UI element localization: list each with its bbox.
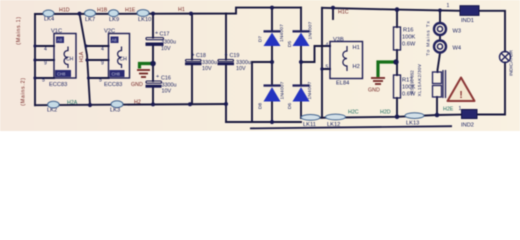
svg-text:LK2: LK2	[47, 108, 57, 114]
svg-text:ECC83: ECC83	[104, 82, 122, 88]
svg-text:3300u: 3300u	[161, 40, 176, 46]
svg-text:D8: D8	[258, 103, 264, 109]
svg-text:0.6W: 0.6W	[402, 42, 416, 48]
svg-text:10V: 10V	[162, 89, 172, 95]
svg-text:+: +	[192, 53, 195, 59]
svg-text:1N4007: 1N4007	[307, 81, 313, 99]
svg-text:CH8: CH8	[112, 72, 121, 77]
svg-text:LK3: LK3	[110, 108, 120, 114]
svg-text:A8: A8	[57, 38, 63, 43]
svg-text:H1A: H1A	[79, 51, 85, 62]
svg-text:H2C: H2C	[348, 110, 359, 116]
svg-text:V3B: V3B	[333, 37, 344, 43]
svg-text:C18: C18	[196, 53, 206, 59]
svg-text:CH8: CH8	[57, 72, 66, 77]
svg-text:H1: H1	[353, 45, 360, 51]
svg-text:10V: 10V	[202, 66, 212, 72]
svg-text:LK4: LK4	[44, 17, 54, 23]
svg-text:D6: D6	[287, 103, 293, 109]
svg-text:100K: 100K	[402, 35, 415, 41]
svg-text:4: 4	[101, 47, 104, 53]
svg-text:IND2: IND2	[461, 123, 474, 129]
svg-text:ECC83: ECC83	[49, 82, 67, 88]
svg-text:LK12: LK12	[327, 122, 340, 128]
svg-text:H1B: H1B	[97, 8, 108, 14]
svg-text:IND1: IND1	[461, 18, 474, 24]
svg-text:LK7: LK7	[85, 17, 95, 23]
svg-text:V2C: V2C	[104, 29, 115, 35]
svg-text:!: !	[459, 90, 462, 101]
svg-text:INDICATOR: INDICATOR	[509, 50, 515, 76]
svg-text:EL84: EL84	[336, 81, 349, 87]
svg-text:H2A: H2A	[67, 100, 78, 106]
svg-text:R16: R16	[403, 28, 413, 34]
svg-text:1N4007: 1N4007	[279, 24, 285, 42]
svg-text:H1: H1	[178, 7, 185, 13]
svg-text:V1C: V1C	[51, 29, 62, 35]
svg-text:A8: A8	[112, 38, 118, 43]
svg-text:+: +	[225, 53, 228, 59]
svg-text:GND: GND	[131, 82, 143, 88]
svg-text:W4: W4	[453, 46, 462, 52]
svg-text:1N4007: 1N4007	[308, 21, 314, 39]
svg-text:4: 4	[326, 43, 329, 49]
svg-text:5: 5	[42, 78, 45, 84]
svg-text:H2E: H2E	[443, 107, 454, 113]
svg-text:10V: 10V	[236, 66, 246, 72]
svg-text:H1E: H1E	[125, 8, 136, 14]
svg-text:H2D: H2D	[380, 110, 391, 116]
svg-text:+: +	[155, 31, 158, 37]
svg-text:D7: D7	[258, 36, 264, 42]
svg-text:1N4007: 1N4007	[280, 81, 286, 99]
svg-text:(Mains.1): (Mains.1)	[16, 16, 22, 44]
svg-text:1: 1	[447, 3, 450, 9]
svg-text:(Mains.2): (Mains.2)	[21, 77, 27, 105]
svg-text:D5: D5	[287, 41, 293, 47]
svg-text:H2: H2	[353, 64, 360, 70]
svg-text:4: 4	[44, 47, 47, 53]
svg-text:C19: C19	[230, 53, 240, 59]
svg-text:+: +	[156, 74, 159, 80]
svg-text:LK13: LK13	[406, 121, 419, 127]
svg-text:H1C: H1C	[338, 10, 349, 16]
svg-text:1: 1	[459, 106, 462, 112]
svg-text:LK9: LK9	[109, 17, 119, 23]
svg-text:H1D: H1D	[59, 8, 70, 14]
svg-text:W3: W3	[453, 29, 462, 35]
svg-text:CH: CH	[120, 57, 128, 63]
svg-text:10V: 10V	[161, 46, 171, 52]
svg-text:H2: H2	[134, 100, 141, 106]
svg-text:GND: GND	[368, 88, 380, 94]
svg-text:5: 5	[326, 65, 329, 71]
svg-text:To Mains Tx: To Mains Tx	[426, 20, 432, 56]
svg-text:CH: CH	[66, 57, 74, 63]
svg-text:C17: C17	[160, 32, 170, 38]
svg-text:LK10: LK10	[138, 17, 151, 23]
svg-text:9: 9	[101, 61, 104, 67]
svg-text:XL15AK2/30V: XL15AK2/30V	[417, 64, 422, 97]
svg-text:5: 5	[99, 78, 102, 84]
svg-text:C16: C16	[161, 76, 171, 82]
svg-text:LK11: LK11	[303, 122, 316, 128]
svg-text:RS 196-852: RS 196-852	[410, 70, 415, 94]
svg-text:9: 9	[44, 61, 47, 67]
